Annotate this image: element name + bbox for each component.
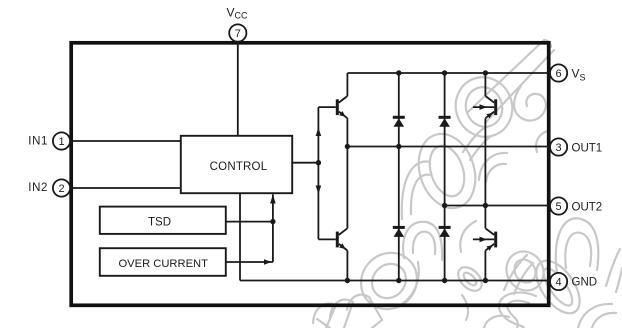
- svg-text:OVER CURRENT: OVER CURRENT: [118, 258, 208, 270]
- svg-text:7: 7: [235, 28, 241, 40]
- svg-text:OUT1: OUT1: [572, 143, 603, 155]
- svg-text:CC: CC: [235, 11, 248, 21]
- svg-text:IN2: IN2: [28, 182, 48, 194]
- svg-text:IN1: IN1: [28, 136, 48, 148]
- svg-text:3: 3: [556, 142, 562, 154]
- svg-text:2: 2: [58, 183, 64, 195]
- svg-text:CONTROL: CONTROL: [210, 161, 268, 173]
- svg-text:TSD: TSD: [148, 216, 171, 228]
- svg-text:6: 6: [556, 68, 562, 80]
- svg-text:4: 4: [556, 277, 562, 289]
- svg-text:V: V: [572, 67, 580, 81]
- svg-text:GND: GND: [572, 277, 598, 289]
- svg-text:V: V: [227, 6, 235, 20]
- svg-text:1: 1: [58, 136, 64, 148]
- svg-text:OUT2: OUT2: [572, 202, 603, 214]
- svg-text:S: S: [580, 73, 586, 83]
- svg-text:5: 5: [556, 201, 562, 213]
